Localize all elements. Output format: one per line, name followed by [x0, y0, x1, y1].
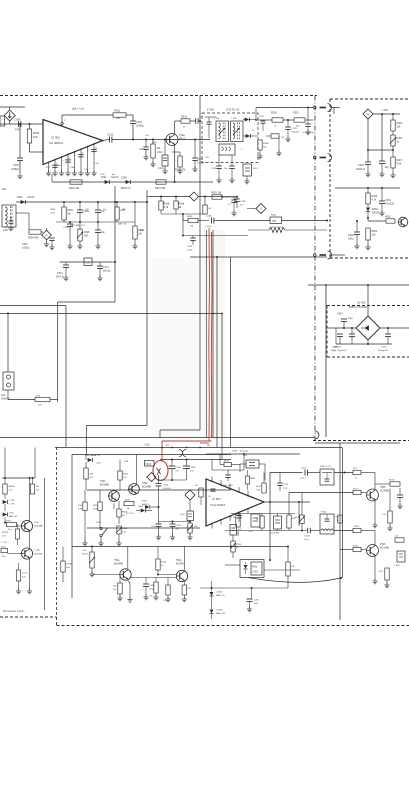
input diamond symbol — [4, 110, 15, 121]
capacitor C408 — [339, 328, 341, 333]
junction dots demod wire — [22, 201, 24, 203]
svg-text:R57a: R57a — [1, 547, 7, 549]
svg-text:470: 470 — [15, 128, 20, 132]
svg-text:C517: C517 — [243, 451, 249, 453]
nf frame left — [71, 455, 73, 599]
svg-text:C403: C403 — [358, 164, 364, 167]
svg-text:220/6,3v: 220/6,3v — [356, 168, 366, 171]
resistor R523 — [260, 516, 264, 528]
svg-text:C51B: C51B — [304, 536, 310, 538]
diode D532 — [3, 513, 8, 517]
rail wire y107 — [256, 107, 313, 109]
svg-text:R332: R332 — [293, 112, 299, 115]
transistor T302 — [166, 134, 178, 146]
resistor at IC501 left — [199, 488, 203, 497]
resistor R407 — [392, 146, 394, 157]
svg-text:BC549B: BC549B — [114, 563, 123, 566]
feedback resistor R522 — [236, 514, 240, 527]
svg-text:R303: R303 — [67, 209, 73, 212]
capacitor C404 — [381, 114, 383, 161]
svg-text:BA100: BA100 — [372, 212, 380, 215]
resistor R333 — [259, 120, 261, 140]
svg-text:IC 301: IC 301 — [51, 136, 60, 140]
svg-text:GL 402: GL 402 — [357, 301, 366, 305]
wire y521 nf in — [159, 521, 191, 523]
resistor R331c — [271, 134, 279, 138]
wire bus into right frame y107 — [330, 107, 340, 109]
vertical x206 black — [206, 230, 208, 438]
resistor R305 — [116, 201, 118, 203]
transistor T504 — [176, 570, 187, 581]
diode D305 — [126, 180, 131, 184]
svg-text:P505: P505 — [236, 544, 242, 546]
svg-text:IC 501: IC 501 — [212, 497, 221, 501]
svg-text:AA1A3: AA1A3 — [111, 176, 119, 179]
svg-text:C30B: C30B — [121, 178, 127, 180]
svg-text:BC319B: BC319B — [380, 547, 389, 550]
filter F502 — [320, 514, 334, 534]
styro capacitor C514 — [251, 514, 260, 527]
long wire y313 — [0, 313, 222, 315]
svg-text:C307: C307 — [13, 163, 20, 167]
potentiometer bias — [117, 526, 121, 534]
diode D2605 — [211, 581, 213, 592]
wire F502 out — [334, 530, 353, 532]
svg-text:0,1μ: 0,1μ — [283, 488, 288, 490]
main vertical bus x200 — [199, 96, 201, 431]
svg-text:+16V: +16V — [382, 108, 388, 112]
node wire y222 demod — [56, 221, 135, 223]
resistor R320 — [134, 202, 136, 222]
resistor R314 — [175, 120, 181, 122]
capacitor C513b hanging — [279, 473, 281, 484]
resistor R304 — [16, 212, 29, 214]
svg-text:C31A: C31A — [206, 215, 212, 218]
vertical signal bus x147 — [146, 190, 148, 426]
svg-text:C308: C308 — [14, 118, 21, 122]
capacitor C314 styro — [164, 140, 166, 156]
svg-text:0,47μ: 0,47μ — [187, 250, 193, 252]
wire y188 afc — [335, 187, 400, 189]
svg-text:G: G — [367, 112, 369, 116]
dashed bottom border — [57, 625, 409, 627]
svg-text:IC? 1/3··: IC? 1/3·· — [126, 513, 135, 515]
resistor R601 — [386, 219, 395, 223]
svg-text:47μ/6,3v: 47μ/6,3v — [385, 203, 395, 206]
wire y220 af left — [183, 220, 188, 222]
svg-text:R756: R756 — [6, 521, 12, 523]
svg-text:R306: R306 — [33, 131, 40, 135]
feed drops from bus — [4, 448, 6, 479]
wire x222 bottom — [221, 448, 223, 460]
svg-text:R504: R504 — [123, 474, 129, 476]
resistor R313 — [172, 151, 180, 153]
potentiometer P305 — [79, 222, 81, 229]
svg-text:C318: C318 — [63, 227, 69, 229]
resistor R517 base T505 — [353, 490, 361, 494]
svg-text:C506: C506 — [163, 485, 169, 487]
wire y528 nf — [87, 527, 200, 529]
svg-text:R30·: R30· — [122, 209, 127, 211]
svg-text:C513: C513 — [283, 484, 289, 486]
output split up — [269, 473, 271, 503]
vertical x244 top — [243, 454, 245, 470]
boxed capacitor C507 — [187, 511, 194, 521]
bridge rectifier GL402 — [356, 316, 380, 340]
svg-text:R319 56k: R319 56k — [155, 187, 166, 190]
svg-text:T 680: T 680 — [394, 565, 400, 567]
svg-text:0,22 μ: 0,22 μ — [300, 478, 307, 480]
T502 collector up — [136, 455, 138, 485]
svg-text:P515: P515 — [295, 517, 301, 519]
diode D304 — [105, 180, 110, 184]
bridge dc output down — [367, 340, 369, 344]
svg-text:Rela: Rela — [252, 566, 258, 569]
capacitor C318 — [69, 222, 71, 224]
svg-text:T50a: T50a — [176, 559, 182, 562]
red signal trace vertical pair — [208, 228, 211, 441]
connector hooks on wire447 — [179, 450, 183, 457]
resistor R524 wire y528 — [353, 528, 361, 532]
hook at divider bottom — [315, 431, 319, 439]
resistor R506 vert — [287, 547, 289, 563]
svg-text:C311: C311 — [136, 120, 143, 124]
svg-text:T·788: T·788 — [34, 550, 40, 552]
wire y490 nf — [87, 489, 231, 491]
resistor R525 top — [353, 470, 361, 474]
dashed frame stabilizer section bottom — [330, 257, 409, 259]
svg-text:R602: R602 — [372, 195, 378, 198]
svg-text:0,082μ: 0,082μ — [22, 247, 30, 250]
T506 emitter — [374, 555, 376, 580]
svg-text:R33a: R33a — [271, 215, 277, 217]
svg-text:C50B: C50B — [232, 451, 238, 453]
svg-text:0,1μ: 0,1μ — [348, 317, 353, 320]
diamond G stabilizer — [363, 109, 373, 119]
left edge partial component — [0, 116, 5, 126]
resistor R305b — [188, 218, 198, 222]
svg-text:R507: R507 — [93, 505, 99, 507]
capacitor C504 — [171, 460, 173, 467]
svg-text:180: 180 — [2, 188, 7, 191]
svg-text:R5120: R5120 — [2, 532, 9, 534]
svg-text:C30·: C30· — [95, 163, 100, 165]
T503 emitter — [128, 580, 130, 583]
potentiometer P510b — [189, 521, 191, 524]
wire y530 fb — [225, 530, 308, 532]
transistor T512 — [21, 548, 32, 559]
svg-text:C32·: C32· — [205, 157, 210, 159]
svg-text:R332 20k: R332 20k — [69, 187, 80, 190]
dashed frame psu left — [326, 306, 328, 358]
svg-text:P306: P306 — [85, 263, 91, 265]
dash-dot section divider vertical — [314, 96, 316, 441]
transistor T502 — [129, 484, 140, 495]
wire lower path y492 — [289, 492, 353, 494]
svg-text:BAV5·75: BAV5·75 — [216, 594, 225, 597]
resistor R520 base T506 — [353, 547, 361, 551]
boxed capacitor C517b — [230, 525, 237, 536]
svg-text:+ L 304: + L 304 — [212, 118, 220, 120]
capacitor C311 feedback — [132, 115, 134, 121]
svg-text:BC548B: BC548B — [142, 486, 151, 489]
wire y478 aux — [2, 477, 35, 479]
svg-text:50(V): 50(V) — [146, 463, 152, 466]
long wire y437 — [0, 437, 315, 439]
svg-text:R31b: R31b — [179, 203, 185, 206]
svg-text:C31·: C31· — [145, 135, 150, 137]
svg-text:R603: R603 — [372, 230, 378, 233]
svg-text:T50a: T50a — [114, 559, 120, 562]
svg-text:(Sp P): (Sp P) — [82, 554, 88, 556]
svg-text:BC209B: BC209B — [380, 490, 389, 493]
diamond test point A — [256, 204, 266, 214]
IC501 bottom pin stubs — [211, 524, 213, 529]
resistor R507 — [98, 502, 102, 511]
svg-text:D506: D506 — [138, 506, 144, 508]
section frame right edge x342 — [342, 448, 344, 579]
svg-text:10μ: 10μ — [385, 166, 390, 169]
svg-text:C505 0μ47: C505 0μ47 — [222, 485, 234, 487]
wire bus y255 to right — [330, 254, 345, 256]
feedback wire y115 — [62, 114, 113, 116]
svg-text:C30·: C30· — [84, 169, 89, 171]
capacitor C315 series — [195, 118, 197, 124]
resistor R306 — [29, 123, 31, 125]
capacitor C315b — [192, 236, 194, 239]
T302 collector wire — [174, 121, 176, 135]
wire x160 down — [159, 430, 161, 438]
svg-text:4,7k: 4,7k — [164, 206, 169, 209]
svg-text:BAV··/70: BAV··/70 — [118, 223, 127, 226]
svg-text:D502: D502 — [142, 501, 148, 503]
vertical x230 long — [230, 257, 232, 448]
capacitor C309 — [79, 201, 81, 203]
capacitor C324 out — [262, 120, 264, 122]
boxed label 50V — [145, 461, 155, 467]
svg-text:R31a: R31a — [181, 116, 188, 119]
wire top-left y107 — [0, 106, 25, 108]
svg-text:C5·: C5· — [208, 496, 212, 498]
svg-text:P502: P502 — [78, 505, 84, 507]
svg-text:C410: C410 — [381, 347, 387, 349]
transistor T503 — [120, 569, 131, 580]
svg-text:C505: C505 — [190, 467, 196, 469]
svg-text:BAV··/35: BAV··/35 — [9, 515, 18, 518]
svg-text:R·777: R·777 — [22, 573, 29, 575]
svg-text:R407: R407 — [397, 159, 403, 162]
diode D506 — [141, 509, 146, 513]
vertical x183 — [182, 214, 184, 236]
resistor R526 — [385, 568, 389, 580]
svg-text:BAV5·/70: BAV5·/70 — [121, 187, 131, 190]
svg-text:R524: R524 — [354, 526, 360, 528]
boxed capacitor C327 — [243, 164, 252, 176]
transistor T511 — [21, 520, 32, 531]
resistor R513 — [16, 570, 20, 581]
resistor R508b emitter — [117, 509, 121, 517]
svg-text:P401: P401 — [397, 137, 403, 140]
capacitor C313 — [145, 140, 147, 148]
svg-text:(+16v): (+16v) — [205, 226, 212, 228]
capacitor C403 — [365, 161, 371, 163]
interstage vertical — [29, 531, 31, 549]
pin stub top feedback — [61, 115, 63, 123]
svg-text:0,082μ: 0,082μ — [11, 167, 19, 171]
svg-text:0,47μ: 0,47μ — [158, 167, 165, 170]
wire y459 nf top — [160, 459, 231, 461]
diamond spare — [185, 490, 195, 500]
svg-text:BC549B: BC549B — [34, 554, 43, 556]
svg-text:220μg/63v: 220μg/63v — [378, 350, 389, 352]
connector hook at divider y255 — [313, 254, 316, 257]
resistor R158 base feed — [157, 547, 159, 560]
op-amp IC501 triangle — [206, 479, 264, 526]
capacitor C302 input — [10, 217, 12, 221]
wire y454 ic top — [206, 453, 300, 455]
svg-text:AA143: AA143 — [27, 196, 35, 199]
connector Cha403 — [3, 372, 14, 390]
dashed outline tuner filter — [202, 113, 258, 163]
dashed frame psu bottom — [327, 356, 409, 358]
capacitor C519 series — [307, 528, 309, 534]
svg-text:C329: C329 — [292, 128, 298, 130]
svg-text:L 306: L 306 — [231, 118, 237, 120]
svg-text:F/502: F/502 — [321, 512, 327, 514]
red trace horizontal to nf input — [162, 440, 212, 442]
resistor R524b — [287, 515, 291, 528]
long wire y182 af out — [52, 181, 213, 183]
svg-text:100μ: 100μ — [348, 238, 354, 241]
resistor R329b — [212, 195, 222, 199]
svg-text:D301: D301 — [17, 196, 23, 199]
svg-text:C30·: C30· — [85, 209, 90, 211]
diode D306 — [245, 118, 250, 122]
IC501 top pin stubs — [211, 476, 213, 481]
capacitor C310b — [97, 201, 99, 203]
svg-text:7x: 7x — [252, 130, 254, 132]
svg-text:0,78 TO G2: 0,78 TO G2 — [226, 108, 240, 112]
svg-text:Cha: Cha — [1, 394, 6, 397]
curved bottom wire arc — [248, 578, 341, 583]
T505 collector — [374, 473, 376, 491]
emitter row wire y577 — [130, 577, 176, 579]
switch S501 — [100, 527, 102, 529]
resistor R756 — [7, 522, 17, 526]
dashed frame stabilizer section top — [330, 98, 409, 100]
svg-text:D30a: D30a — [101, 177, 107, 179]
zigzag thermistor — [269, 228, 285, 233]
svg-text:403/603: 403/603 — [1, 398, 10, 401]
svg-text:R601: R601 — [385, 216, 391, 219]
resistor R310 — [152, 140, 154, 145]
potentiometer P401 — [392, 131, 394, 135]
svg-text:1:50·: 1:50· — [82, 550, 87, 552]
capacitor C409 — [349, 333, 355, 335]
capacitor C410 — [387, 328, 389, 334]
svg-text:BC548B: BC548B — [100, 484, 109, 487]
capacitor C502 — [158, 522, 160, 525]
vertical from diamond — [367, 119, 369, 162]
capacitor C515 above ic — [225, 474, 231, 476]
resistor R503 — [85, 462, 87, 468]
output wire down from ic to relay row — [269, 502, 271, 560]
potentiometer P503 volume — [90, 552, 94, 568]
capacitor C312 series — [109, 137, 111, 143]
wire y150 stab — [368, 149, 393, 151]
svg-text:0,2 μ: 0,2 μ — [304, 539, 310, 541]
svg-text:C326: C326 — [211, 168, 217, 170]
svg-text:D602: D602 — [372, 208, 378, 211]
pin stubs bottom with numbers — [48, 162, 50, 168]
resistor R332 series — [70, 180, 82, 184]
vertical signal bus x115 — [114, 186, 116, 302]
wire relay right — [264, 569, 300, 571]
wire y588 — [200, 587, 288, 589]
svg-text:C503: C503 — [176, 525, 182, 527]
dashed border segment y439 right — [313, 440, 409, 442]
svg-text:R518: R518 — [389, 480, 395, 482]
svg-text:C504: C504 — [176, 467, 182, 469]
svg-text:R30·: R30· — [36, 396, 41, 398]
dashed left border of nf block — [56, 447, 58, 617]
connector hook at divider y157 — [313, 156, 316, 159]
svg-text:+15v: +15v — [144, 443, 150, 447]
resistor R512 hanging — [263, 473, 265, 484]
svg-text:BC04AB: BC04AB — [34, 525, 43, 528]
svg-text:C374: C374 — [103, 266, 109, 269]
wire jog y425 — [86, 425, 147, 427]
resistor R403 — [392, 114, 394, 120]
svg-text:0,042μ: 0,042μ — [136, 124, 144, 128]
svg-text:CA 3089 A: CA 3089 A — [49, 141, 63, 145]
wire y328 right — [380, 327, 409, 329]
output wire from op-amp apex — [103, 140, 110, 141]
svg-text:0,08μ: 0,08μ — [198, 162, 205, 165]
svg-text:D303 BAV··/70: D303 BAV··/70 — [70, 224, 85, 227]
resistor R518 — [390, 482, 400, 486]
resistor R315 — [175, 197, 177, 202]
output wire from IC501 — [264, 501, 310, 503]
capacitor C516b — [236, 515, 242, 517]
ground row under op-amp — [48, 168, 50, 172]
svg-text:R305: R305 — [187, 216, 193, 218]
svg-text:0,6B: 0,6B — [124, 461, 129, 463]
resistor P502 — [83, 502, 87, 511]
capacitor C337 on rail — [307, 108, 309, 125]
resistor R318 — [204, 197, 206, 206]
capacitor C314 series — [211, 218, 213, 224]
resistor R521 — [224, 462, 232, 466]
svg-text:R512: R512 — [256, 486, 262, 488]
svg-text:5,6k: 5,6k — [397, 163, 402, 166]
ground T501 bias — [113, 503, 115, 509]
svg-text:C3··: C3·· — [228, 204, 232, 206]
svg-text:C2906: C2906 — [216, 610, 223, 612]
wire y114 stab — [373, 113, 400, 115]
wire y214 discr — [161, 213, 205, 215]
wire y546 long bus — [72, 546, 288, 548]
electrolytic C373 — [60, 261, 112, 263]
diode D2606 — [210, 610, 214, 614]
wire y344 psu — [336, 343, 392, 345]
dashed frame psu top — [327, 305, 409, 307]
capacitor C407 — [344, 327, 356, 329]
svg-text:R331: R331 — [114, 109, 121, 113]
vertical from gnd bus to y182 — [51, 174, 53, 182]
resistor R508 — [61, 561, 65, 572]
svg-text:C518 68n: C518 68n — [270, 533, 280, 535]
